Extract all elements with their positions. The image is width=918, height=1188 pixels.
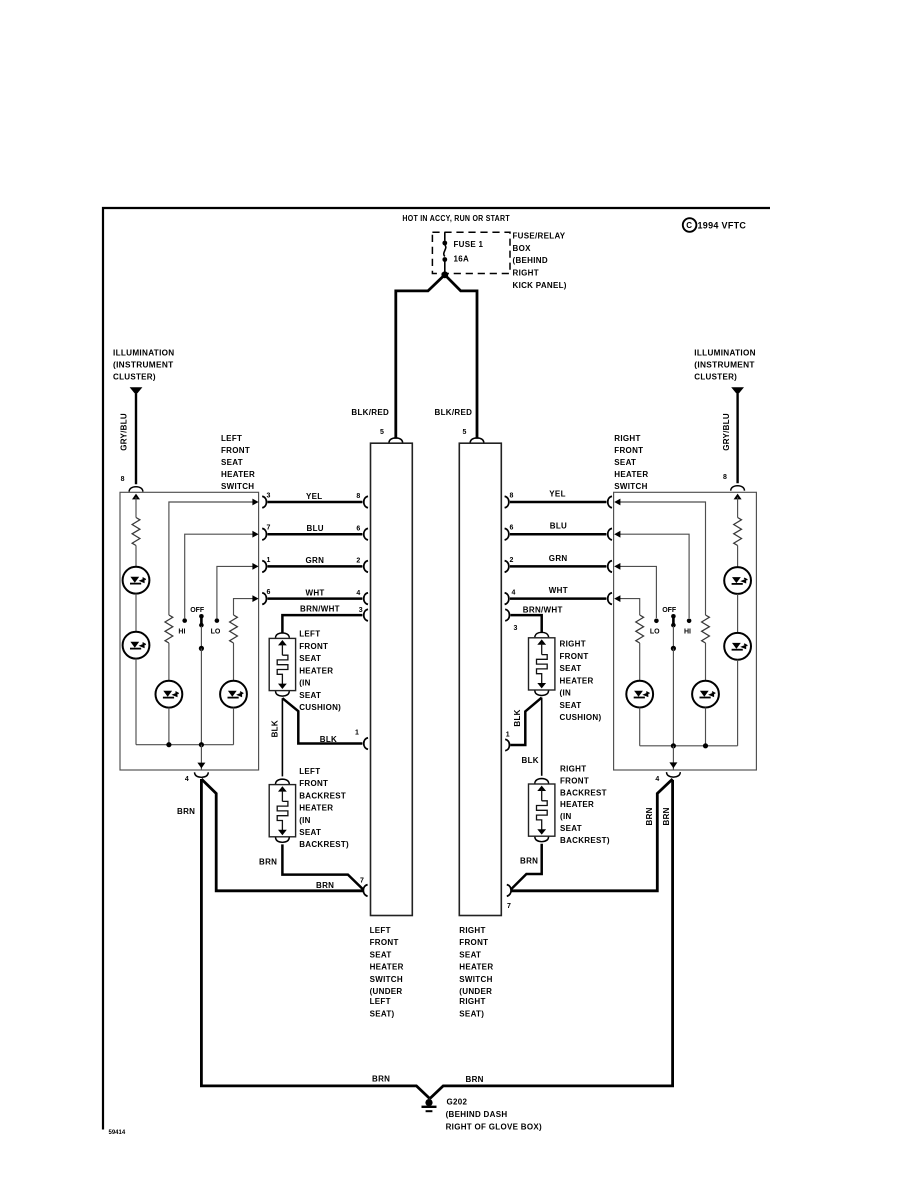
- illumination feed right: [694, 349, 756, 484]
- right switch OFF contact: [662, 607, 677, 746]
- wire BLK left to pin 1: [282, 698, 368, 749]
- right front seat heater element (in seat cushion): [529, 638, 555, 690]
- svg-text:FRONT: FRONT: [299, 642, 328, 651]
- connector pin 8 right switch: [731, 486, 745, 491]
- svg-text:LEFT: LEFT: [370, 926, 391, 935]
- wire YEL right: [505, 489, 612, 507]
- svg-text:BLU: BLU: [550, 522, 567, 531]
- svg-text:OFF: OFF: [190, 607, 205, 614]
- svg-text:YEL: YEL: [549, 489, 565, 498]
- svg-text:BACKREST: BACKREST: [560, 788, 607, 797]
- svg-text:CLUSTER): CLUSTER): [113, 373, 156, 382]
- svg-text:BRN: BRN: [372, 1074, 390, 1083]
- connector at right backrest heater top: [535, 779, 549, 784]
- svg-text:FRONT: FRONT: [614, 446, 643, 455]
- svg-text:7: 7: [267, 525, 271, 532]
- connector at left backrest heater top: [276, 779, 290, 784]
- svg-text:LEFT: LEFT: [221, 434, 242, 443]
- left switch LO resistor branch: [230, 595, 259, 681]
- svg-text:G202: G202: [447, 1098, 468, 1107]
- svg-text:SEAT): SEAT): [459, 1009, 484, 1018]
- right switch LO contact: [614, 563, 660, 636]
- svg-text:C: C: [686, 221, 692, 230]
- svg-text:1: 1: [506, 731, 510, 738]
- connector pin 8 left switch: [129, 487, 143, 492]
- svg-text:4: 4: [185, 776, 189, 783]
- wire BLK/RED to left switch connector pin 5: [396, 275, 445, 439]
- connector pin 4 left switch: [195, 772, 209, 777]
- svg-text:HEATER: HEATER: [560, 800, 594, 809]
- svg-text:HEATER: HEATER: [221, 470, 255, 479]
- label LEFT FRONT SEAT HEATER SWITCH (UNDER LEFT SEAT): [370, 926, 404, 1018]
- svg-text:3: 3: [267, 492, 271, 499]
- fuse/relay box (dashed): [432, 232, 510, 273]
- svg-text:1: 1: [355, 730, 359, 737]
- wire to bus: [135, 659, 137, 745]
- wire YEL left: [262, 492, 368, 508]
- wire BRN/WHT left: [282, 605, 368, 633]
- junction at fuse output: [441, 271, 448, 278]
- left front seat heater element (in seat cushion): [269, 638, 295, 690]
- svg-text:SEAT: SEAT: [299, 654, 321, 663]
- svg-text:6: 6: [356, 525, 360, 532]
- svg-text:SEAT: SEAT: [560, 701, 582, 710]
- svg-text:2: 2: [510, 557, 514, 564]
- svg-text:FRONT: FRONT: [459, 938, 488, 947]
- svg-text:BRN/WHT: BRN/WHT: [523, 606, 563, 615]
- wire WHT right: [505, 586, 612, 604]
- svg-text:RIGHT: RIGHT: [459, 926, 485, 935]
- svg-text:FRONT: FRONT: [299, 779, 328, 788]
- wire: [135, 594, 137, 632]
- connector pin 4 right switch: [667, 772, 681, 777]
- right switch LO resistor branch: [614, 595, 643, 681]
- fuse F1 16A: [442, 232, 483, 272]
- wire BRN/WHT right: [505, 606, 562, 633]
- svg-text:HEATER: HEATER: [299, 804, 333, 813]
- svg-text:WHT: WHT: [306, 588, 325, 597]
- ground G202: [422, 1098, 543, 1132]
- svg-text:2: 2: [356, 558, 360, 565]
- svg-text:(IN: (IN: [560, 689, 572, 698]
- wire GRN left: [262, 556, 368, 572]
- svg-text:(INSTRUMENT: (INSTRUMENT: [113, 361, 174, 370]
- left front seat heater switch label: [221, 434, 255, 491]
- svg-text:4: 4: [655, 776, 659, 783]
- svg-text:FUSE 1: FUSE 1: [454, 240, 484, 249]
- svg-text:HOT IN ACCY, RUN OR START: HOT IN ACCY, RUN OR START: [402, 214, 510, 223]
- svg-text:HI: HI: [178, 629, 185, 636]
- svg-text:RIGHT: RIGHT: [513, 269, 539, 278]
- connector at left cushion heater top: [276, 633, 290, 638]
- svg-text:HEATER: HEATER: [614, 470, 648, 479]
- svg-text:BACKREST): BACKREST): [560, 836, 610, 845]
- wire BRN right switch pin 4 to pin 7: [511, 779, 673, 891]
- svg-text:ILLUMINATION: ILLUMINATION: [694, 349, 756, 358]
- wire BLK right (to backrest heater): [522, 698, 542, 776]
- illumination feed left: [113, 349, 175, 485]
- wire BLK left (to backrest heater): [270, 698, 282, 776]
- svg-text:3: 3: [514, 625, 518, 632]
- label RIGHT FRONT SEAT HEATER SWITCH (UNDER RIGHT SEAT): [459, 926, 493, 1018]
- lamp LED7: [692, 681, 719, 708]
- svg-text:6: 6: [510, 525, 514, 532]
- svg-text:ILLUMINATION: ILLUMINATION: [113, 349, 175, 358]
- connector at right backrest heater bottom: [535, 837, 549, 842]
- svg-text:SEAT: SEAT: [560, 664, 582, 673]
- svg-text:(INSTRUMENT: (INSTRUMENT: [694, 361, 755, 370]
- svg-text:1994 VFTC: 1994 VFTC: [698, 221, 747, 231]
- svg-text:1: 1: [267, 557, 271, 564]
- lamp LED3: [156, 681, 183, 708]
- left front backrest heater element (in seat backrest): [269, 785, 295, 837]
- svg-text:LEFT: LEFT: [299, 767, 320, 776]
- wire BLU left: [262, 524, 368, 540]
- connector pin 5 left: [389, 438, 403, 443]
- svg-text:OFF: OFF: [662, 607, 677, 614]
- wire BLK right to pin 1: [505, 698, 542, 751]
- svg-text:SEAT: SEAT: [299, 828, 321, 837]
- svg-text:SWITCH: SWITCH: [614, 482, 647, 491]
- svg-text:FRONT: FRONT: [560, 776, 589, 785]
- svg-text:8: 8: [723, 474, 727, 481]
- svg-text:SEAT: SEAT: [221, 458, 243, 467]
- svg-text:BRN: BRN: [177, 807, 195, 816]
- svg-text:RIGHT: RIGHT: [614, 434, 640, 443]
- left switch illumination branch: [132, 494, 140, 567]
- svg-text:SWITCH: SWITCH: [370, 975, 403, 984]
- svg-text:BRN: BRN: [466, 1075, 484, 1084]
- copyright 1994 VFTC: [683, 218, 747, 232]
- svg-text:FRONT: FRONT: [370, 938, 399, 947]
- svg-text:BRN/WHT: BRN/WHT: [300, 605, 340, 614]
- right switch box S2: [614, 492, 757, 770]
- svg-text:6: 6: [267, 589, 271, 596]
- right switch HI contact: [614, 531, 691, 636]
- svg-text:SEAT: SEAT: [560, 824, 582, 833]
- wire WHT left: [262, 588, 368, 604]
- wire BLK/RED to right switch connector pin 5: [445, 275, 477, 439]
- svg-text:CLUSTER): CLUSTER): [694, 373, 737, 382]
- svg-text:BRN: BRN: [520, 856, 538, 865]
- svg-text:HI: HI: [684, 629, 691, 636]
- wire BRN right switch to ground: [430, 780, 673, 1099]
- wire GRN right: [505, 554, 612, 572]
- svg-text:WHT: WHT: [549, 586, 568, 595]
- svg-text:BACKREST): BACKREST): [299, 840, 349, 849]
- left switch OFF contact: [190, 607, 205, 745]
- svg-text:5: 5: [380, 429, 384, 436]
- lamp LED8: [626, 681, 653, 708]
- right switch common bus: [640, 743, 738, 770]
- left switch box S1: [120, 492, 259, 770]
- left switch HI contact: [178, 531, 258, 636]
- svg-text:HEATER: HEATER: [299, 666, 333, 675]
- svg-text:SEAT): SEAT): [370, 1009, 395, 1018]
- svg-text:SEAT: SEAT: [459, 950, 481, 959]
- connector pin 7 left: [363, 885, 367, 897]
- svg-text:LO: LO: [211, 629, 221, 636]
- connector at right cushion heater bottom: [535, 691, 549, 696]
- svg-text:KICK PANEL): KICK PANEL): [513, 281, 567, 290]
- svg-text:7: 7: [360, 877, 364, 884]
- svg-text:3: 3: [359, 607, 363, 614]
- svg-text:CUSHION): CUSHION): [299, 703, 341, 712]
- svg-text:(IN: (IN: [299, 679, 311, 688]
- right switch HI resistor branch: [614, 499, 709, 681]
- lamp LED1: [123, 567, 150, 594]
- right front backrest heater element (in seat backrest): [529, 784, 555, 836]
- svg-text:LEFT: LEFT: [370, 997, 391, 1006]
- svg-text:BOX: BOX: [513, 244, 532, 253]
- connector at left backrest heater bottom: [276, 837, 290, 842]
- svg-text:RIGHT: RIGHT: [560, 640, 586, 649]
- svg-text:(BEHIND DASH: (BEHIND DASH: [446, 1110, 508, 1119]
- svg-text:(UNDER: (UNDER: [370, 987, 403, 996]
- svg-text:RIGHT OF GLOVE BOX): RIGHT OF GLOVE BOX): [446, 1122, 542, 1131]
- left switch connector body (tall rectangle): [371, 443, 413, 915]
- right front seat heater switch label: [614, 434, 648, 491]
- left switch LO contact: [211, 563, 259, 636]
- svg-text:CUSHION): CUSHION): [560, 713, 602, 722]
- svg-text:GRY/BLU: GRY/BLU: [120, 413, 129, 451]
- svg-text:59414: 59414: [109, 1130, 126, 1136]
- left switch HI resistor branch: [165, 499, 259, 681]
- svg-text:(UNDER: (UNDER: [459, 987, 492, 996]
- svg-text:BLK: BLK: [270, 720, 279, 737]
- svg-text:HEATER: HEATER: [370, 963, 404, 972]
- svg-text:BLK/RED: BLK/RED: [351, 408, 389, 417]
- svg-text:(BEHIND: (BEHIND: [513, 256, 548, 265]
- wire BLU right: [505, 522, 612, 540]
- svg-text:SWITCH: SWITCH: [459, 975, 492, 984]
- svg-text:BLK: BLK: [320, 735, 337, 744]
- svg-text:GRN: GRN: [549, 554, 568, 563]
- wire BRN left backrest to pin 7: [259, 844, 364, 890]
- svg-text:8: 8: [121, 476, 125, 483]
- svg-text:4: 4: [356, 590, 360, 597]
- svg-text:BLK/RED: BLK/RED: [435, 408, 473, 417]
- svg-text:16A: 16A: [454, 254, 470, 263]
- svg-text:8: 8: [510, 492, 514, 499]
- svg-text:(IN: (IN: [560, 812, 572, 821]
- connector at left cushion heater bottom: [276, 691, 290, 696]
- svg-text:(IN: (IN: [299, 816, 311, 825]
- svg-text:GRY/BLU: GRY/BLU: [722, 413, 731, 451]
- svg-text:HEATER: HEATER: [560, 676, 594, 685]
- svg-text:BLU: BLU: [307, 524, 324, 533]
- svg-text:SEAT: SEAT: [370, 950, 392, 959]
- svg-text:FRONT: FRONT: [221, 446, 250, 455]
- svg-text:BLK: BLK: [513, 709, 522, 726]
- svg-text:SEAT: SEAT: [299, 691, 321, 700]
- connector pin 7 right: [507, 885, 511, 897]
- svg-text:BRN: BRN: [645, 807, 654, 825]
- svg-text:5: 5: [463, 429, 467, 436]
- lamp LED2: [123, 632, 150, 659]
- left switch common bus: [136, 742, 234, 770]
- lamp LED6: [724, 633, 751, 660]
- wire BRN left switch to ground: [201, 779, 429, 1099]
- right switch connector body (tall rectangle): [459, 443, 501, 915]
- svg-text:BRN: BRN: [316, 881, 334, 890]
- svg-text:LO: LO: [650, 629, 660, 636]
- svg-text:4: 4: [512, 590, 516, 597]
- svg-text:GRN: GRN: [306, 556, 325, 565]
- page border frame: [103, 208, 770, 1130]
- svg-text:RIGHT: RIGHT: [560, 765, 586, 774]
- svg-text:BRN: BRN: [662, 807, 671, 825]
- svg-text:BLK: BLK: [522, 756, 539, 765]
- svg-text:LEFT: LEFT: [299, 630, 320, 639]
- svg-text:FUSE/RELAY: FUSE/RELAY: [513, 231, 566, 240]
- svg-text:SEAT: SEAT: [614, 458, 636, 467]
- svg-text:FRONT: FRONT: [560, 652, 589, 661]
- connector pin 5 right: [470, 438, 484, 443]
- wire BRN left switch pin 4 to pin 7: [177, 779, 364, 891]
- svg-text:8: 8: [356, 493, 360, 500]
- right switch illumination branch: [734, 494, 742, 567]
- svg-text:BACKREST: BACKREST: [299, 791, 346, 800]
- svg-text:7: 7: [507, 903, 511, 910]
- svg-text:SWITCH: SWITCH: [221, 482, 254, 491]
- connector at right cushion heater top: [535, 632, 549, 637]
- svg-text:YEL: YEL: [306, 492, 322, 501]
- lamp LED4: [220, 681, 247, 708]
- svg-text:RIGHT: RIGHT: [459, 997, 485, 1006]
- svg-text:BRN: BRN: [259, 858, 277, 867]
- svg-text:HEATER: HEATER: [459, 963, 493, 972]
- lamp LED5: [724, 567, 751, 594]
- wire BRN right backrest to pin 7: [511, 844, 542, 890]
